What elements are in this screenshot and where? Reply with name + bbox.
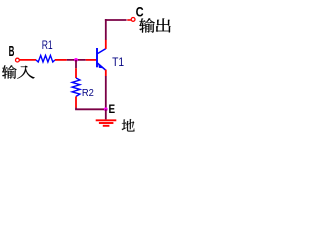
transistor T1 collector pin — [105, 40, 107, 49]
label 地 (ground) — [122, 119, 135, 131]
ground stem — [105, 109, 107, 119]
transistor T1 collector line — [98, 49, 106, 54]
ground bar 3 — [103, 125, 110, 127]
svg-text:R2: R2 — [82, 87, 94, 99]
wire collector up — [105, 19, 107, 40]
svg-text:R1: R1 — [42, 40, 53, 52]
resistor R1 body — [36, 55, 55, 62]
transistor T1 base pin — [86, 59, 96, 61]
label 输入 (input) — [2, 65, 35, 78]
transistor T1 emitter pin — [105, 70, 107, 77]
svg-text:E: E — [109, 104, 116, 116]
svg-text:B: B — [9, 43, 15, 60]
ground bar 1 — [96, 119, 117, 121]
resistor R2 bottom pin — [75, 96, 77, 107]
label 输出 (output) — [139, 18, 170, 33]
transistor T1 emitter arrow — [98, 65, 103, 69]
wire base net — [67, 59, 86, 61]
resistor R1 left pin — [20, 59, 37, 61]
transistor T1 base bar — [96, 48, 98, 67]
wire stub to C terminal — [127, 19, 131, 21]
transistor T1 emitter line — [98, 63, 106, 70]
resistor R1 right pin — [55, 59, 67, 61]
wire top horizontal — [105, 19, 127, 21]
resistor R2 top pin — [75, 68, 77, 78]
resistor R2 body — [72, 78, 80, 96]
terminal B (input port circle) — [16, 58, 20, 62]
wire R2 top — [75, 60, 77, 68]
ground bar 2 — [99, 122, 114, 124]
terminal C (output port circle) — [131, 18, 135, 22]
wire R2 bottom corner — [76, 108, 106, 110]
svg-text:C: C — [136, 3, 144, 19]
junction dot E — [104, 107, 108, 111]
junction dot at R2 tap — [74, 58, 78, 62]
wire emitter down — [105, 76, 107, 109]
svg-text:T1: T1 — [112, 55, 124, 69]
